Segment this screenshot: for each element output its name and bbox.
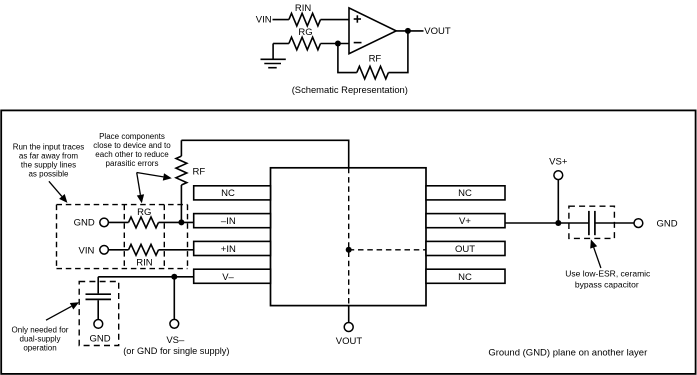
svg-text:–IN: –IN — [221, 216, 236, 227]
svg-text:VIN: VIN — [79, 246, 95, 257]
svg-text:each other to reduce: each other to reduce — [95, 150, 169, 159]
svg-text:VIN: VIN — [256, 15, 272, 26]
svg-text:+IN: +IN — [221, 244, 236, 255]
svg-text:Use low-ESR, ceramic: Use low-ESR, ceramic — [565, 269, 651, 279]
svg-text:bypass capacitor: bypass capacitor — [575, 280, 639, 290]
svg-text:NC: NC — [221, 188, 235, 199]
svg-text:RIN: RIN — [295, 3, 312, 14]
svg-text:V+: V+ — [459, 216, 471, 227]
svg-text:VOUT: VOUT — [336, 336, 363, 347]
svg-text:Only needed for: Only needed for — [12, 325, 69, 334]
svg-text:dual-supply: dual-supply — [20, 334, 61, 343]
svg-text:RF: RF — [369, 54, 382, 65]
svg-text:as far away from: as far away from — [19, 151, 78, 160]
svg-text:RG: RG — [298, 27, 312, 38]
svg-text:operation: operation — [23, 344, 56, 353]
svg-text:VS+: VS+ — [549, 157, 568, 168]
svg-text:as possible: as possible — [28, 169, 69, 178]
svg-text:(Schematic Representation): (Schematic Representation) — [292, 84, 408, 95]
svg-text:NC: NC — [458, 272, 472, 283]
svg-text:the supply lines: the supply lines — [21, 160, 76, 169]
svg-text:GND: GND — [74, 217, 95, 228]
svg-text:NC: NC — [458, 188, 472, 199]
svg-text:VS–: VS– — [166, 335, 185, 346]
svg-text:(or GND for single supply): (or GND for single supply) — [123, 346, 229, 356]
svg-text:GND: GND — [89, 333, 110, 344]
svg-text:RF: RF — [193, 166, 206, 177]
svg-text:parasitic errors: parasitic errors — [106, 159, 159, 168]
svg-text:RG: RG — [137, 207, 151, 218]
svg-text:V–: V– — [222, 272, 234, 283]
svg-text:GND: GND — [657, 218, 678, 229]
svg-text:Ground (GND) plane on another: Ground (GND) plane on another layer — [488, 348, 647, 359]
svg-text:VOUT: VOUT — [424, 26, 451, 37]
svg-text:RIN: RIN — [136, 257, 153, 268]
svg-text:Place components: Place components — [99, 132, 165, 141]
svg-text:Run the input traces: Run the input traces — [13, 142, 85, 151]
svg-text:close to device and to: close to device and to — [93, 141, 171, 150]
svg-text:OUT: OUT — [455, 244, 475, 255]
